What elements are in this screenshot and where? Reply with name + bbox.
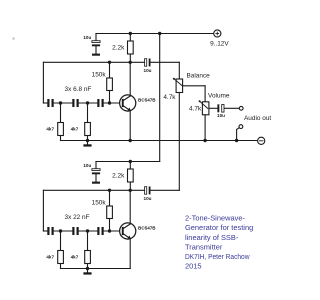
svg-text:BC547B: BC547B: [138, 226, 156, 231]
svg-text:150k: 150k: [92, 71, 107, 78]
svg-text:Transmitter: Transmitter: [185, 242, 223, 251]
svg-text:2-Tone-Sinewave-: 2-Tone-Sinewave-: [185, 214, 245, 223]
svg-text:4.7k: 4.7k: [163, 94, 176, 101]
svg-text:10u: 10u: [144, 68, 152, 73]
svg-text:3x 6.8 nF: 3x 6.8 nF: [65, 86, 92, 93]
svg-text:10u: 10u: [83, 163, 91, 168]
svg-text:150k: 150k: [92, 199, 107, 206]
svg-text:10u: 10u: [217, 113, 225, 118]
svg-text:4k7: 4k7: [71, 127, 79, 132]
svg-text:3x 22 nF: 3x 22 nF: [65, 214, 90, 221]
svg-text:Generator for testing: Generator for testing: [185, 223, 253, 232]
svg-text:Volume: Volume: [208, 93, 230, 100]
svg-text:9..12V: 9..12V: [210, 40, 229, 47]
svg-text:Balance: Balance: [187, 73, 211, 80]
svg-text:Audio out: Audio out: [244, 115, 271, 122]
svg-text:10u: 10u: [144, 196, 152, 201]
svg-text:BC547B: BC547B: [138, 98, 156, 103]
svg-text:4k7: 4k7: [46, 255, 54, 260]
svg-text:10u: 10u: [83, 35, 91, 40]
svg-text:2.2k: 2.2k: [112, 45, 125, 52]
svg-text:2015: 2015: [185, 262, 202, 271]
svg-text:4k7: 4k7: [71, 255, 79, 260]
svg-text:2.2k: 2.2k: [112, 173, 125, 180]
svg-text:4.7k: 4.7k: [189, 105, 202, 112]
svg-text:linearity of SSB-: linearity of SSB-: [185, 233, 239, 242]
svg-text:DK7IH, Peter Rachow: DK7IH, Peter Rachow: [185, 252, 250, 261]
svg-text:4k7: 4k7: [46, 127, 54, 132]
